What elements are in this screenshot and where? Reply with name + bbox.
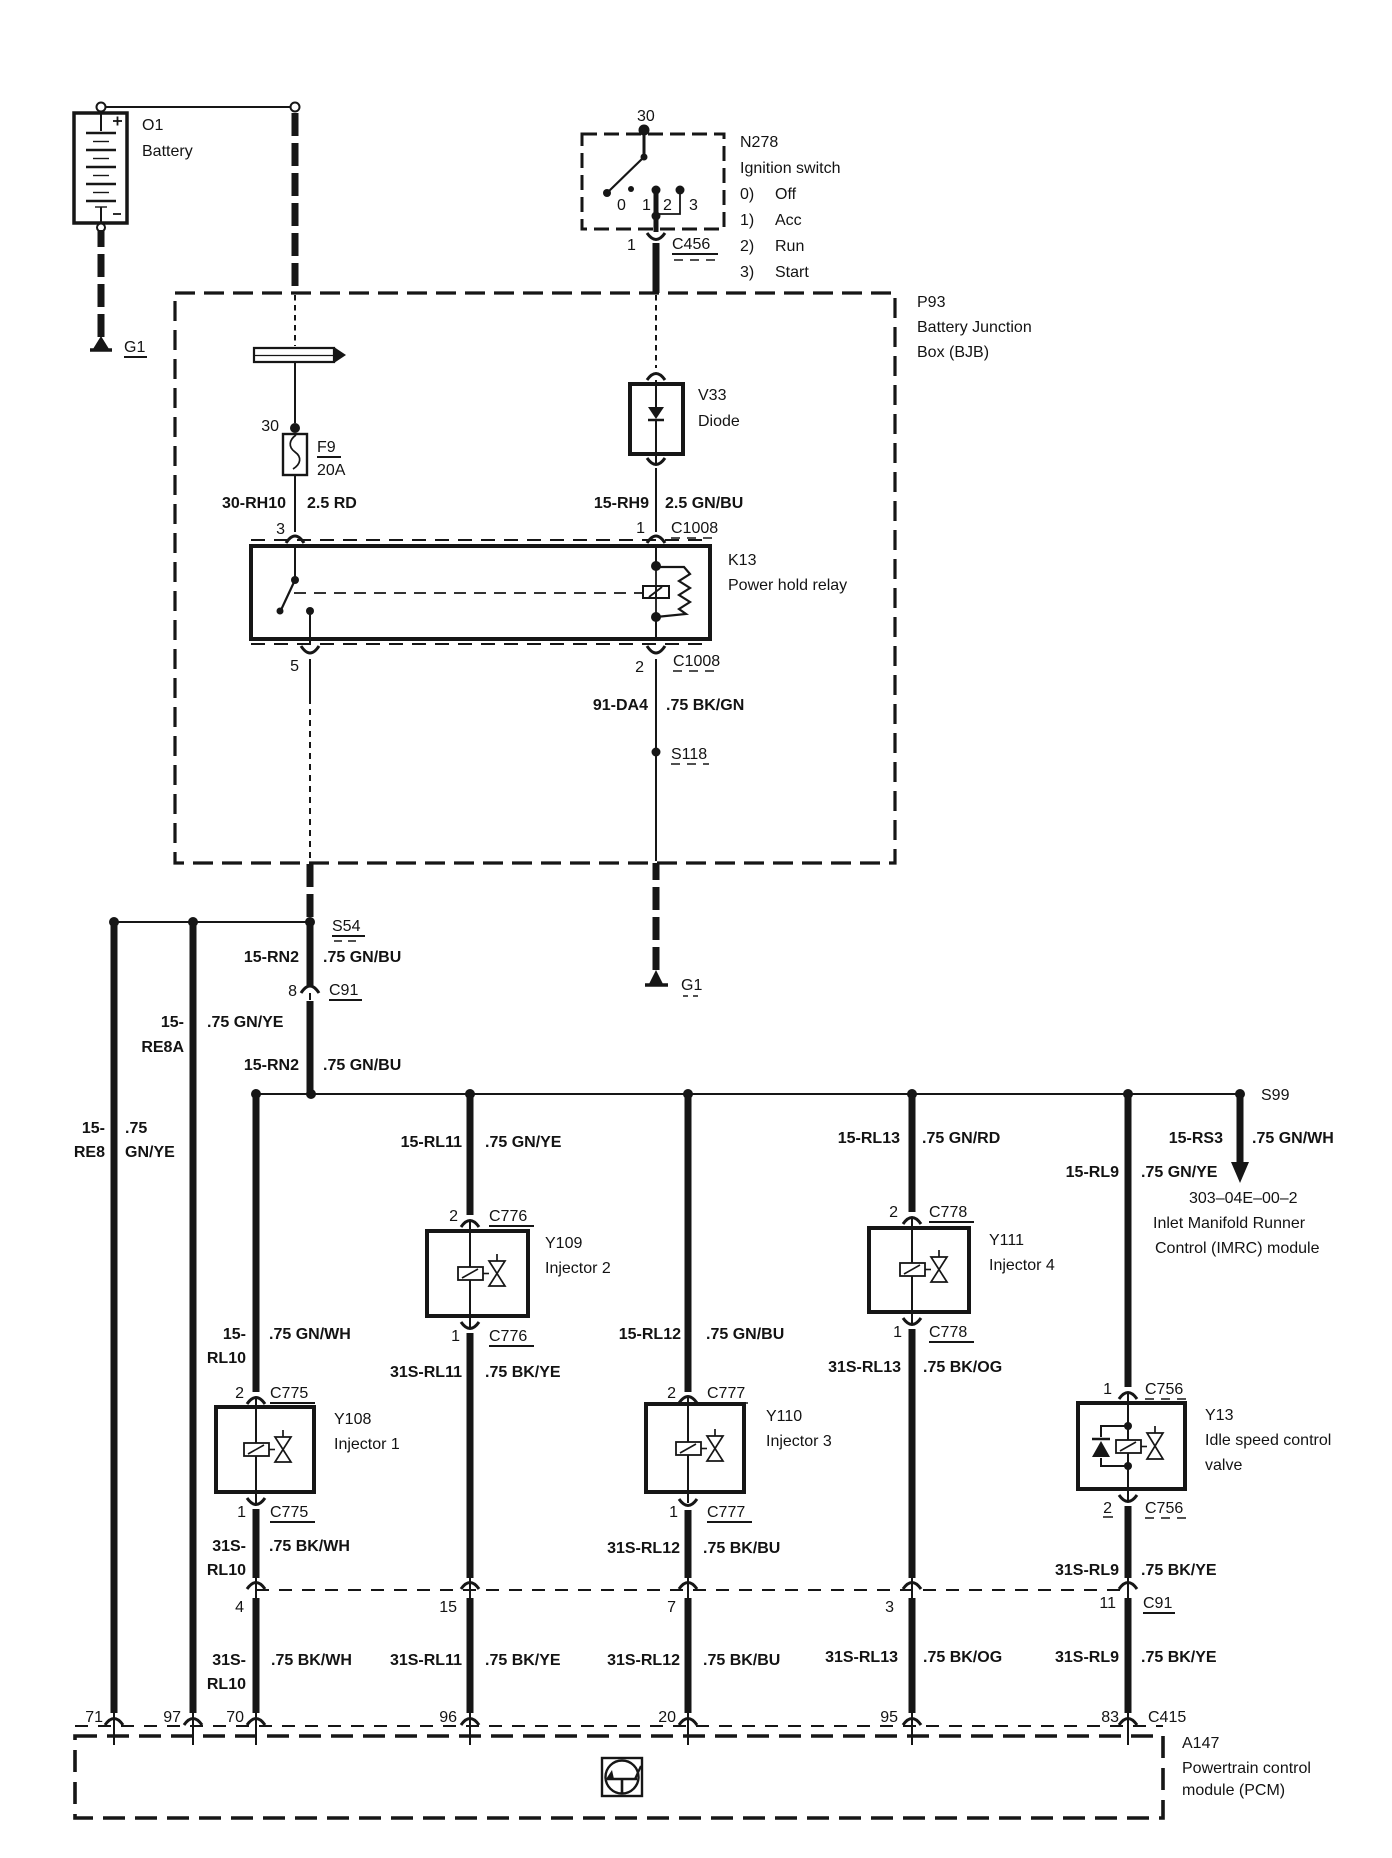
svg-text:C91: C91 (1143, 1595, 1172, 1612)
svg-text:15-RL11: 15-RL11 (401, 1134, 462, 1151)
svg-text:C1008: C1008 (673, 653, 720, 670)
connector row line C415 (75, 1725, 1163, 1727)
svg-text:15-RS3: 15-RS3 (1169, 1130, 1223, 1147)
wire C456 to BJB (thick) (653, 243, 660, 293)
wire relay pin 2 down (655, 659, 657, 861)
svg-text:2: 2 (667, 1385, 676, 1402)
connector C778 pin 2 (889, 1204, 974, 1228)
connector C91 pin 8 (288, 982, 362, 1000)
svg-text:3: 3 (885, 1599, 894, 1616)
connector C756 pin 1 (1103, 1381, 1190, 1403)
connector row cup pin 4 (247, 1583, 265, 1590)
pin labels 71 97 (85, 1709, 181, 1726)
wire 15-RE8 (left column) (111, 922, 118, 1713)
wire battery to ground (thick dashed) (98, 230, 105, 337)
svg-text:RL10: RL10 (207, 1350, 246, 1367)
svg-text:.75: .75 (125, 1120, 147, 1137)
svg-text:RL10: RL10 (207, 1676, 246, 1693)
svg-text:2: 2 (235, 1385, 244, 1402)
svg-text:15: 15 (439, 1599, 457, 1616)
svg-text:1: 1 (1103, 1381, 1112, 1398)
svg-text:.75 BK/YE: .75 BK/YE (1141, 1649, 1217, 1666)
svg-text:N278: N278 (740, 134, 778, 151)
wire pin 11 to PCM pin 83 (1125, 1598, 1132, 1713)
svg-text:0): 0) (740, 186, 754, 203)
relay linkage dashed line (294, 592, 643, 594)
svg-text:2: 2 (449, 1208, 458, 1225)
svg-text:15-RH9: 15-RH9 (594, 495, 649, 512)
svg-text:31S-: 31S- (212, 1652, 246, 1669)
svg-text:C415: C415 (1148, 1709, 1186, 1726)
svg-text:1: 1 (627, 237, 636, 254)
svg-text:303–04E–00–2: 303–04E–00–2 (1189, 1190, 1298, 1207)
connector C776 pin 1 (451, 1316, 534, 1346)
power hold relay K13 (251, 546, 847, 639)
svg-text:20: 20 (658, 1709, 676, 1726)
svg-text:15-RL13: 15-RL13 (838, 1130, 900, 1147)
connector C456 (627, 233, 718, 260)
svg-text:.75 BK/WH: .75 BK/WH (269, 1538, 350, 1555)
svg-text:Y108: Y108 (334, 1411, 371, 1428)
powertrain control module A147 (PCM) (75, 1735, 1311, 1818)
svg-text:30: 30 (637, 108, 655, 125)
svg-text:.75 GN/WH: .75 GN/WH (269, 1326, 351, 1343)
connector C776 pin 2 (449, 1208, 534, 1231)
svg-text:G1: G1 (681, 977, 702, 994)
svg-text:1: 1 (237, 1504, 246, 1521)
svg-text:C756: C756 (1145, 1381, 1183, 1398)
wire label 91-DA4 .75 BK/GN (593, 697, 744, 714)
svg-text:GN/YE: GN/YE (125, 1144, 175, 1161)
svg-text:Powertrain control: Powertrain control (1182, 1760, 1311, 1777)
wire ignition C456 into BJB to diode (thin dashed) (655, 295, 657, 368)
svg-text:.75 BK/YE: .75 BK/YE (485, 1364, 561, 1381)
svg-text:5: 5 (290, 658, 299, 675)
svg-text:Battery Junction: Battery Junction (917, 319, 1032, 336)
svg-text:Inlet Manifold Runner: Inlet Manifold Runner (1153, 1215, 1306, 1232)
svg-text:70: 70 (226, 1709, 244, 1726)
svg-text:Injector 2: Injector 2 (545, 1260, 611, 1277)
svg-text:91-DA4: 91-DA4 (593, 697, 648, 714)
svg-text:31S-RL13: 31S-RL13 (828, 1359, 901, 1376)
svg-text:.75 GN/YE: .75 GN/YE (1141, 1164, 1218, 1181)
svg-text:.75 GN/BU: .75 GN/BU (706, 1326, 784, 1343)
splice node S54 (109, 917, 365, 941)
connector cup pin 2 (647, 646, 665, 653)
svg-text:Idle speed control: Idle speed control (1205, 1432, 1331, 1449)
labels 1 C1008 top (594, 495, 743, 537)
ground G1 (battery) (90, 336, 147, 357)
ignition switch N278 (582, 108, 841, 281)
svg-text:S54: S54 (332, 918, 361, 935)
connector cup pin 3 (286, 536, 304, 543)
svg-text:15-RN2: 15-RN2 (244, 949, 299, 966)
svg-text:31S-RL12: 31S-RL12 (607, 1652, 680, 1669)
svg-text:Y111: Y111 (989, 1232, 1024, 1249)
svg-text:Acc: Acc (775, 212, 802, 229)
idle speed control valve Y13 (1078, 1403, 1331, 1489)
connector row cup pin 7 (679, 1583, 697, 1590)
svg-text:.75 GN/YE: .75 GN/YE (207, 1014, 284, 1031)
connector cup diode bottom (647, 458, 665, 465)
wire bus to injector 1 (253, 1094, 260, 1392)
wire C777 to connector row (685, 1510, 692, 1578)
svg-text:2: 2 (635, 659, 644, 676)
connector row cup pin 15 (461, 1583, 479, 1590)
connector row line C91 (256, 1589, 1129, 1591)
svg-text:S99: S99 (1261, 1087, 1290, 1104)
svg-text:C777: C777 (707, 1504, 745, 1521)
svg-text:Y110: Y110 (766, 1408, 802, 1425)
labels 5 / 2 C1008 bottom (290, 653, 720, 676)
svg-text:C91: C91 (329, 982, 358, 999)
svg-text:2.5 RD: 2.5 RD (307, 495, 357, 512)
wire fuse to relay pin 3 (294, 475, 296, 532)
injector 1 Y108 (216, 1407, 400, 1492)
svg-text:1): 1) (740, 212, 754, 229)
svg-text:8: 8 (288, 983, 297, 1000)
relay armature box (643, 586, 669, 598)
wire ignition to C456 (654, 216, 659, 232)
relay top connector line C1008 (251, 539, 710, 541)
svg-text:.75 BK/BU: .75 BK/BU (703, 1540, 780, 1557)
wire C778 to connector row (909, 1329, 916, 1578)
svg-text:Power hold relay: Power hold relay (728, 577, 847, 594)
svg-text:2: 2 (889, 1204, 898, 1221)
svg-text:71: 71 (85, 1709, 103, 1726)
svg-text:C778: C778 (929, 1204, 967, 1221)
wire bus to idle speed control valve (1125, 1094, 1132, 1387)
svg-text:C778: C778 (929, 1324, 967, 1341)
svg-text:2): 2) (740, 238, 754, 255)
svg-text:.75 GN/WH: .75 GN/WH (1252, 1130, 1334, 1147)
wire S54 to C91 (307, 922, 314, 986)
svg-text:Y109: Y109 (545, 1235, 582, 1252)
svg-text:.75 BK/WH: .75 BK/WH (271, 1652, 352, 1669)
fuse F9 20A (283, 434, 346, 479)
svg-text:Run: Run (775, 238, 804, 255)
svg-text:C776: C776 (489, 1208, 527, 1225)
svg-text:.75 BK/YE: .75 BK/YE (485, 1652, 561, 1669)
svg-text:Injector 1: Injector 1 (334, 1436, 400, 1453)
svg-text:module (PCM): module (PCM) (1182, 1782, 1285, 1799)
wire C91 to bus (307, 1001, 314, 1094)
wire pin 15 to PCM pin 96 (467, 1598, 474, 1713)
svg-text:Y13: Y13 (1205, 1407, 1234, 1424)
svg-text:Diode: Diode (698, 413, 740, 430)
power feed bar pointer (254, 347, 346, 363)
svg-text:15-: 15- (223, 1326, 246, 1343)
wire node down to BJB (thick dashed) (292, 113, 299, 292)
svg-text:31S-RL9: 31S-RL9 (1055, 1562, 1119, 1579)
svg-text:3): 3) (740, 264, 754, 281)
svg-text:97: 97 (163, 1709, 181, 1726)
svg-text:31S-RL11: 31S-RL11 (390, 1364, 462, 1381)
splice S118 (652, 748, 661, 757)
connector row cup pin 11 C91 (1119, 1583, 1137, 1590)
svg-text:.75 BK/OG: .75 BK/OG (923, 1649, 1002, 1666)
svg-text:31S-RL12: 31S-RL12 (607, 1540, 680, 1557)
svg-text:31S-RL9: 31S-RL9 (1055, 1649, 1119, 1666)
diode V33 (630, 380, 740, 463)
svg-text:11: 11 (1099, 1595, 1116, 1612)
svg-text:96: 96 (439, 1709, 457, 1726)
svg-text:RE8: RE8 (74, 1144, 105, 1161)
svg-text:83: 83 (1101, 1709, 1119, 1726)
svg-text:G1: G1 (124, 339, 145, 356)
PCM icon (602, 1758, 642, 1796)
svg-text:20A: 20A (317, 462, 346, 479)
svg-text:31S-: 31S- (212, 1538, 246, 1555)
svg-text:Box (BJB): Box (BJB) (917, 344, 989, 361)
wire BJB to ground (thick dashed) (653, 863, 660, 970)
svg-text:3: 3 (276, 521, 285, 538)
svg-text:A147: A147 (1182, 1735, 1219, 1752)
wire label 30-RH10 2.5 RD (222, 495, 357, 538)
svg-text:1: 1 (451, 1328, 460, 1345)
svg-text:15-RL12: 15-RL12 (619, 1326, 681, 1343)
svg-text:.75 GN/RD: .75 GN/RD (922, 1130, 1000, 1147)
svg-text:.75 GN/YE: .75 GN/YE (485, 1134, 562, 1151)
svg-text:V33: V33 (698, 387, 727, 404)
svg-text:.75 GN/BU: .75 GN/BU (323, 949, 401, 966)
connector cup diode top (647, 374, 665, 381)
injector 2 Y109 (427, 1231, 611, 1316)
svg-text:95: 95 (880, 1709, 898, 1726)
connector C775 pin 1 (237, 1492, 315, 1522)
svg-text:.75 BK/GN: .75 BK/GN (666, 697, 744, 714)
svg-text:2: 2 (663, 197, 672, 214)
svg-text:.75 BK/YE: .75 BK/YE (1141, 1562, 1217, 1579)
svg-text:RL10: RL10 (207, 1562, 246, 1579)
svg-text:Injector 4: Injector 4 (989, 1257, 1055, 1274)
svg-text:Injector 3: Injector 3 (766, 1433, 832, 1450)
svg-text:C776: C776 (489, 1328, 527, 1345)
svg-text:1: 1 (893, 1324, 902, 1341)
relay coil (651, 546, 690, 639)
node at top of feed (291, 103, 300, 112)
svg-text:C456: C456 (672, 236, 710, 253)
svg-text:C756: C756 (1145, 1500, 1183, 1517)
bus line to S99 (251, 1087, 1290, 1104)
svg-text:.75 BK/BU: .75 BK/BU (703, 1652, 780, 1669)
svg-text:15-RN2: 15-RN2 (244, 1057, 299, 1074)
svg-text:15-: 15- (161, 1014, 184, 1031)
injector 3 Y110 (646, 1404, 832, 1492)
wire S99 to IMRC module (arrow) (1153, 1094, 1334, 1257)
wire battery top to node (105, 106, 291, 108)
svg-text:S118: S118 (671, 746, 707, 763)
svg-text:2: 2 (1103, 1500, 1112, 1517)
svg-text:Control (IMRC) module: Control (IMRC) module (1155, 1240, 1320, 1257)
svg-text:C775: C775 (270, 1385, 308, 1402)
svg-text:15-: 15- (82, 1120, 105, 1137)
connector row cup pin 3 (903, 1583, 921, 1590)
svg-text:1: 1 (669, 1504, 678, 1521)
wire bus to injector 3 (685, 1094, 692, 1392)
svg-text:30-RH10: 30-RH10 (222, 495, 286, 512)
svg-text:C775: C775 (270, 1504, 308, 1521)
wire pin 4 to PCM pin 70 (253, 1598, 260, 1713)
svg-text:Start: Start (775, 264, 809, 281)
wire BJB top to feed bar (thin dashed) (294, 295, 296, 346)
svg-text:C777: C777 (707, 1385, 745, 1402)
relay switch contact (pin 3 side) (277, 546, 315, 644)
connector cup pin 1 (647, 536, 665, 543)
wire C775 to connector row (253, 1509, 260, 1578)
relay bottom connector line C1008 (251, 643, 710, 645)
svg-text:31S-RL13: 31S-RL13 (825, 1649, 898, 1666)
svg-text:.75 BK/OG: .75 BK/OG (923, 1359, 1002, 1376)
wire feed bar to fuse (294, 362, 296, 423)
wire relay pin 5 down (309, 659, 311, 698)
svg-text:O1: O1 (142, 117, 163, 134)
wire C776 to connector row (467, 1333, 474, 1578)
wire pin 3 to PCM pin 95 (909, 1598, 916, 1713)
connector C777 pin 1 (669, 1492, 752, 1522)
connector C775 pin 2 (235, 1385, 315, 1407)
PCM terminations (cups + pin ticks) (105, 1713, 1137, 1745)
svg-text:30: 30 (261, 418, 279, 435)
svg-text:Off: Off (775, 186, 797, 203)
battery junction box P93 (175, 293, 1032, 863)
svg-text:P93: P93 (917, 294, 946, 311)
svg-text:valve: valve (1205, 1457, 1242, 1474)
wire diode to relay pin 1 (655, 468, 657, 532)
connector cup pin 5 (301, 646, 319, 653)
injector 4 Y111 (869, 1228, 1055, 1312)
svg-text:F9: F9 (317, 439, 336, 456)
battery O1 (74, 103, 193, 232)
svg-text:3: 3 (689, 197, 698, 214)
wire pin 7 to PCM pin 20 (685, 1598, 692, 1713)
svg-text:31S-RL11: 31S-RL11 (390, 1652, 462, 1669)
svg-text:Battery: Battery (142, 143, 193, 160)
svg-text:1: 1 (636, 520, 645, 537)
wire C756 to connector row C91 (1125, 1506, 1132, 1578)
wire bus to injector 4 (909, 1094, 916, 1212)
svg-text:15-RL9: 15-RL9 (1066, 1164, 1119, 1181)
svg-text:K13: K13 (728, 552, 757, 569)
svg-text:Ignition switch: Ignition switch (740, 160, 841, 177)
wire bus to injector 2 (467, 1094, 474, 1215)
svg-text:2.5 GN/BU: 2.5 GN/BU (665, 495, 743, 512)
connector C778 pin 1 (893, 1312, 974, 1342)
wire 15-RE8A (second column) (190, 922, 197, 1713)
svg-text:.75 GN/BU: .75 GN/BU (323, 1057, 401, 1074)
svg-text:C1008: C1008 (671, 520, 718, 537)
connector C777 pin 2 (667, 1385, 752, 1404)
svg-text:7: 7 (667, 1599, 676, 1616)
svg-text:4: 4 (235, 1599, 244, 1616)
connector C756 pin 2 (1103, 1489, 1190, 1518)
svg-text:0: 0 (617, 197, 626, 214)
ground G1 (BJB) (645, 970, 702, 996)
svg-text:RE8A: RE8A (141, 1039, 184, 1056)
svg-text:1: 1 (642, 197, 651, 214)
